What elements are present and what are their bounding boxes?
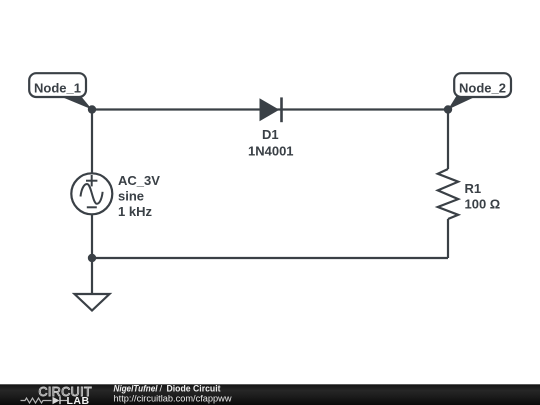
svg-text:R1: R1	[465, 181, 482, 196]
svg-text:http://circuitlab.com/cfappww: http://circuitlab.com/cfappww	[114, 394, 232, 405]
svg-text:D1: D1	[262, 127, 279, 142]
svg-text:1N4001: 1N4001	[248, 144, 294, 159]
svg-text:1 kHz: 1 kHz	[118, 204, 152, 219]
svg-text:sine: sine	[118, 188, 144, 203]
svg-text:Node_1: Node_1	[34, 81, 81, 96]
svg-text:Node_2: Node_2	[459, 81, 506, 96]
svg-text:100 Ω: 100 Ω	[465, 197, 501, 212]
svg-text:AC_3V: AC_3V	[118, 173, 160, 188]
svg-text:LAB: LAB	[67, 395, 90, 405]
